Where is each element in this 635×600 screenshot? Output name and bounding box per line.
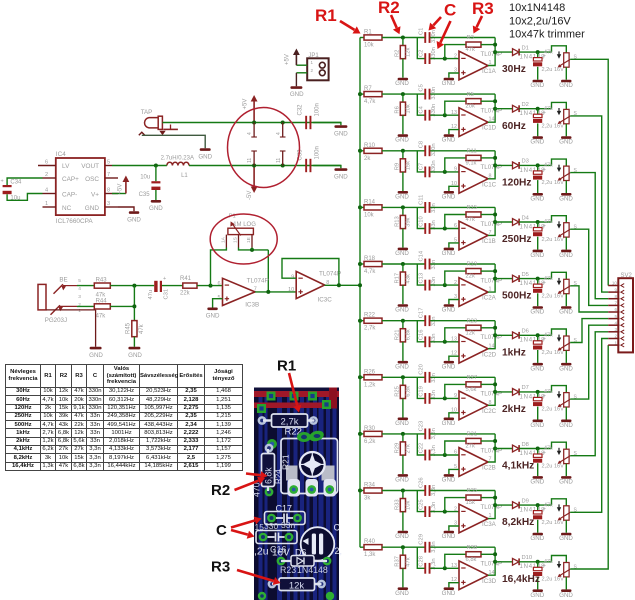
svg-text:R2: R2 [211, 482, 230, 499]
ground at IC1A + input [442, 73, 459, 87]
svg-text:R21: R21 [281, 454, 291, 470]
resistor R11 9,1k feedback [445, 149, 495, 172]
svg-text:33n: 33n [281, 520, 295, 530]
wire C bottom to inverting input [430, 566, 459, 570]
IC4 pin 6 LV [38, 159, 56, 165]
resistor R3 47k feedback [445, 35, 495, 58]
ground at JP1 [290, 73, 304, 98]
PCB capacitor C16 [255, 520, 298, 544]
capacitor C11 33n (top) [418, 195, 437, 213]
ground at R6 [395, 115, 409, 143]
annotation R1 bottom (black) [277, 358, 301, 413]
resistor R22 2,7k [364, 313, 382, 332]
wire to node A [382, 432, 425, 436]
+5V arrow at IC4 V+ [112, 176, 129, 195]
SV2 pin 3 [608, 327, 624, 334]
wire diode to node [519, 390, 551, 394]
ground at C18 [530, 350, 544, 372]
parts list text [509, 2, 585, 40]
resistor R14 10k [364, 199, 382, 218]
ground at jack [89, 347, 103, 359]
ground at C30 [530, 577, 544, 599]
capacitor C5 330n (top) [418, 84, 437, 99]
SV2 pin 2 [608, 334, 624, 341]
trimmer potentiometer 47k stage 8 [544, 442, 578, 464]
wire C34 to CAP- [7, 194, 42, 201]
wire IC3C feedback loop [282, 259, 339, 286]
wire trimmer wiper to SV2 pin [570, 286, 608, 312]
wire CAP+ to C34 [7, 178, 42, 185]
IC4 pin 2 CAP+ [43, 172, 56, 178]
trimmer potentiometer 47k stage 7 [544, 386, 578, 408]
wire IC3C out to filter bus [325, 283, 360, 287]
capacitor C7 330n (bottom) [418, 160, 437, 177]
wire C top to output node [430, 376, 495, 378]
wire pot wiper/E to feedback [239, 248, 269, 292]
wire TAP center to +5V rail [162, 122, 341, 124]
wire to node A [382, 36, 425, 40]
wire to node A [382, 92, 425, 96]
wire C top to output node [430, 37, 495, 39]
node bus stage 7 [358, 375, 364, 379]
PCB resistor R23 12k [268, 578, 326, 591]
wire trimmer wiper to SV2 pin [570, 319, 608, 343]
IC4 pin 3 GND [105, 201, 118, 207]
node bus stage 5 [358, 262, 364, 266]
ground at IC1D + input [442, 130, 459, 144]
wire trimmer wiper to SV2 pin [570, 116, 608, 292]
resistor R35 15k feedback [445, 488, 495, 511]
node bus stage 6 [358, 319, 364, 323]
diode D5 1N4148 [495, 272, 545, 287]
capacitor C29 3,3n (top) [418, 534, 437, 553]
wire trimmer wiper to SV2 pin [570, 173, 608, 299]
capacitor C25 3,3n (bottom) [418, 499, 437, 517]
IC4 pin 8 V+ [105, 187, 118, 193]
ground at IC3B + input [206, 299, 223, 320]
wire jack sleeve to ground [46, 310, 96, 347]
wire trimmer wiper to SV2 pin [570, 332, 608, 456]
SV2 pin 7 [608, 301, 624, 308]
ground at IC3D + input [442, 583, 459, 597]
capacitor C26 3,3n (top) [418, 477, 437, 496]
wire node A down to C2 row [417, 207, 424, 228]
resistor R6 10k [394, 94, 411, 115]
capacitor C22 3,3n (bottom) [418, 443, 437, 461]
resistor R10 2k [364, 143, 382, 162]
wire diode to node [519, 220, 551, 224]
wire diode to node [519, 107, 551, 111]
node bus stage 3 [358, 149, 364, 153]
resistor R13 39k [394, 207, 411, 228]
wire JP1 pin1 [296, 64, 307, 66]
wire C bottom to inverting input [430, 227, 459, 231]
PCB electrolytic capacitor [301, 523, 342, 561]
wire diode to node [519, 503, 551, 507]
+5V arrow at JP1 [285, 49, 300, 66]
resistor R7 4,7k [364, 86, 382, 105]
capacitor C12 2,2u/16V [533, 222, 564, 243]
ground at trimmer stage 3 [559, 181, 573, 203]
capacitor C3 2,2u/16V [533, 52, 564, 73]
wire C top to output node [430, 320, 495, 322]
resistor R38 6,8k feedback [445, 545, 495, 568]
ground at IC2C + input [442, 413, 459, 427]
inductor L1 2.7uH/0.23A [161, 155, 194, 179]
node +5V rail [252, 121, 285, 125]
wire C top to output node [430, 433, 495, 435]
capacitor C32 100n [298, 103, 321, 129]
+5V arrow on supply rail [243, 95, 258, 123]
wire VOUT to L1 [112, 165, 167, 167]
ground at trimmer stage 4 [559, 237, 573, 259]
wire diode to node [519, 163, 551, 167]
output node vertical [488, 151, 497, 179]
resistor R26 1,2k [364, 369, 382, 388]
svg-text:470: 470 [252, 482, 262, 497]
capacitor C9 2,2u/16V [533, 165, 564, 186]
capacitor C34 10u [1, 179, 23, 202]
ground at IC2A + input [442, 300, 459, 314]
output node vertical [488, 491, 497, 519]
wire JP1 pin2 [296, 72, 307, 74]
wire C top to output node [430, 490, 495, 492]
ground at C9 [530, 180, 544, 202]
capacitor C20 33n (top) [418, 364, 437, 383]
resistor R30 6,2k [364, 426, 382, 445]
capacitor C30 2,2u/16V [533, 562, 564, 583]
wire C bottom to inverting input [430, 113, 459, 117]
ground at trimmer stage 5 [559, 294, 573, 316]
diode D4 1N4148 [495, 215, 545, 230]
trimmer potentiometer 47k stage 6 [544, 329, 578, 351]
wire pot A to IC3B input [211, 248, 227, 286]
ground at R45 [128, 337, 142, 359]
svg-text:R3: R3 [211, 559, 230, 576]
wire R43 to C31 [110, 284, 154, 288]
node bus stage 4 [358, 205, 364, 209]
resistor R23 12k feedback [445, 318, 495, 341]
ground at C27 [530, 520, 544, 542]
wire C top to output node [430, 150, 495, 152]
resistor R37 47k [394, 547, 411, 568]
capacitor C15 2,2u/16V [533, 279, 564, 300]
connector JP1 [307, 53, 328, 80]
label 16,4kHz [502, 574, 540, 585]
diode D10 1N4148 [495, 555, 545, 570]
resistor R44 47k [94, 299, 110, 320]
wire node A down to C2 row [417, 94, 424, 115]
wire L1 to -5V rail [189, 165, 341, 167]
svg-text:1N4148: 1N4148 [297, 565, 328, 575]
ground at R25 [395, 399, 409, 427]
wire diode to node [519, 277, 551, 281]
ground at IC1C + input [442, 186, 459, 200]
capacitor C19 33n (bottom) [418, 386, 437, 404]
PCB bottom pads [258, 592, 334, 600]
opamp power pin 4 (right) [276, 123, 286, 138]
svg-text:R24: R24 [274, 469, 283, 484]
capacitor C18 2,2u/16V [533, 335, 564, 356]
resistor R18 4,7k [364, 256, 382, 275]
ground at C6 [530, 123, 544, 145]
ground at R21 [395, 342, 409, 370]
wire trimmer wiper to SV2 pin [570, 325, 608, 399]
wire to node A [382, 489, 425, 493]
capacitor C17 33n (top) [418, 308, 437, 327]
potentiometer P1 1M LOG [221, 214, 257, 248]
op-amp IC3D TL074P [451, 561, 502, 590]
ground at R33 [395, 512, 409, 540]
resistor R9 15k [394, 151, 411, 172]
red circle around P1 [210, 214, 277, 264]
wire C bottom to inverting input [430, 170, 459, 174]
wire C top to output node [430, 263, 495, 265]
ground at R29 [395, 455, 409, 483]
SV2 pin 10 [608, 281, 624, 288]
resistor R33 10k [394, 491, 411, 512]
resistor R2 12k [394, 38, 411, 59]
wire C bottom to inverting input [430, 283, 459, 287]
node -5V rail [252, 164, 285, 168]
label 120Hz [502, 178, 531, 189]
output node vertical [488, 377, 497, 405]
red circle around power pins [228, 108, 300, 188]
trimmer potentiometer 47k stage 9 [544, 499, 578, 521]
ground at IC2D + input [442, 356, 459, 370]
svg-text:C: C [216, 522, 227, 539]
PCB resistor R22 2,7k [258, 414, 318, 438]
wire C top to output node [430, 546, 495, 548]
wire node A down to C2 row [417, 377, 424, 398]
ground at trimmer stage 7 [559, 407, 573, 429]
capacitor C23 3,3n (top) [418, 421, 437, 440]
ground at R2 [395, 59, 409, 87]
resistor R21 6,8k [394, 321, 411, 342]
wire C top to output node [430, 206, 495, 208]
ground at C15 [530, 293, 544, 315]
resistor R1 10k [364, 30, 382, 49]
ground at trimmer stage 9 [559, 520, 573, 542]
diode D6 1N4148 [495, 329, 545, 344]
ground at C12 [530, 237, 544, 259]
wire to node A [382, 319, 425, 323]
wire C bottom to inverting input [430, 57, 459, 61]
ground at C3 [530, 67, 544, 89]
ground at trimmer stage 6 [559, 350, 573, 372]
capacitor C31 47u [148, 276, 169, 300]
op-amp IC1A TL074P [454, 51, 502, 80]
label 4,1kHz [502, 461, 534, 472]
annotation C (red) [429, 1, 457, 49]
wire IC3B out to IC3C [255, 290, 296, 294]
ground at C32 [313, 123, 348, 138]
label 2kHz [502, 404, 526, 415]
wire C bottom to inverting input [430, 340, 459, 344]
svg-text:R1: R1 [277, 358, 296, 375]
SV2 pin 4 [608, 320, 624, 327]
ground at C33 [313, 166, 348, 181]
wire to node A [382, 205, 425, 209]
capacitor C8 330n (top) [418, 141, 437, 156]
capacitor C16 33n (bottom) [418, 330, 437, 348]
svg-text:R23: R23 [280, 565, 296, 575]
ground at IC1B + input [442, 243, 459, 257]
op-amp IC1C TL074P [451, 164, 502, 193]
IC4 ICL7660CPA [56, 151, 105, 225]
op-amp IC2D TL074P [451, 334, 502, 363]
IC4 pin 5 VOUT [105, 159, 112, 165]
capacitor C28 3,3n (bottom) [418, 556, 437, 574]
frequency data table [5, 364, 243, 471]
-5V arrow on supply rail [247, 166, 258, 201]
IC4 pin 1 NC [43, 201, 56, 207]
PCB text R23 1N4148 [280, 565, 328, 575]
trimmer potentiometer 47k stage 3 [544, 159, 578, 181]
wire C bottom to inverting input [430, 453, 459, 457]
wire trimmer wiper to SV2 pin [570, 345, 608, 569]
wire trimmer wiper to SV2 pin [570, 229, 608, 305]
output node vertical [488, 434, 497, 462]
svg-text:330: 330 [264, 521, 278, 531]
PCB resistor R24 6,8k [252, 444, 284, 497]
ground at trimmer stage 1 [559, 67, 573, 89]
capacitor C2 330n (bottom) [418, 47, 437, 64]
resistor R45 47k [126, 321, 146, 337]
label 250Hz [502, 234, 531, 245]
label 500Hz [502, 291, 531, 302]
wire C top to output node [430, 93, 495, 95]
ground at R9 [395, 172, 409, 200]
resistor R5 20k feedback [445, 92, 495, 115]
output node vertical [488, 38, 497, 66]
capacitor C33 100n [298, 146, 321, 172]
op-amp IC1B TL074P [454, 221, 502, 250]
wire diode to node [519, 50, 551, 54]
wire trimmer wiper to SV2 pin [570, 59, 608, 285]
capacitor C4 330n (bottom) [418, 104, 437, 121]
resistor R29 27k [394, 434, 411, 455]
PCB trimmer R21 [267, 429, 338, 497]
capacitor C6 2,2u/16V [533, 109, 564, 130]
resistor R15 47k feedback [445, 205, 495, 228]
ground at C24 [530, 463, 544, 485]
wire to node A [382, 262, 425, 266]
wire C31 to R41 [162, 285, 183, 287]
annotation R2 (red) [378, 0, 401, 34]
ground at trimmer stage 2 [559, 124, 573, 146]
wire node A down to C2 row [417, 321, 424, 342]
resistor R41 22k [180, 276, 197, 297]
connector SV2 [618, 273, 633, 352]
capacitor C35 10u [139, 166, 164, 213]
annotation R1 (red) [315, 6, 361, 34]
wire R44 junction [110, 286, 136, 321]
ground at trimmer stage 10 [559, 577, 573, 599]
resistor R17 43k [394, 264, 411, 285]
wire diode to node [519, 333, 551, 337]
wire to node A [382, 375, 425, 379]
label 60Hz [502, 121, 526, 132]
TAP power connector [139, 109, 178, 135]
resistor R31 27k feedback [445, 432, 495, 455]
SV2 pin 1 [608, 340, 624, 347]
PCB capacitor C17 [264, 504, 305, 532]
wire node A down to C2 row [417, 264, 424, 285]
ground at R13 [395, 229, 409, 257]
ground at trimmer stage 8 [559, 464, 573, 486]
trimmer potentiometer 47k stage 4 [544, 216, 578, 238]
output node vertical [488, 547, 497, 575]
capacitor C14 33n (top) [418, 250, 437, 269]
ground at TAP [198, 148, 212, 160]
diode D3 1N4148 [495, 159, 545, 174]
trimmer potentiometer 47k stage 1 [544, 46, 578, 68]
audio jack BE PG203J [38, 277, 81, 324]
op-amp IC2A TL074P [454, 277, 502, 306]
annotation C bottom (black) [216, 517, 262, 540]
opamp power pin 11 (left) [247, 151, 257, 166]
diode D9 1N4148 [495, 498, 545, 513]
trimmer potentiometer 47k stage 5 [544, 272, 578, 294]
svg-text:,2u: ,2u [254, 546, 269, 558]
resistor R40 1,3k [364, 539, 382, 558]
resistor R43 47k [94, 278, 110, 299]
diode D7 1N4148 [495, 385, 545, 400]
output node vertical [488, 321, 497, 349]
op-amp IC2C TL074P [451, 391, 502, 420]
ground at C21 [530, 407, 544, 429]
input bus from IC3C [358, 38, 362, 548]
ground at IC4 pin 3 [118, 207, 141, 223]
node bus stage 1 [360, 37, 364, 39]
resistor R34 3k [364, 483, 382, 502]
wire node A down to C2 row [417, 38, 424, 59]
PCB diode D6 [277, 548, 332, 567]
resistor R27 5,6k feedback [445, 375, 495, 398]
diode D8 1N4148 [495, 442, 545, 457]
resistor R25 6,8k [394, 377, 411, 398]
wire TAP sleeve to ground [142, 135, 205, 148]
opamp power pin 4 (left) [247, 123, 257, 138]
node bus stage 9 [358, 489, 364, 493]
output node vertical [488, 264, 497, 292]
label 1kHz [502, 347, 526, 358]
IC4 pin 7 OSC [105, 172, 118, 178]
output node vertical [488, 207, 497, 235]
trimmer potentiometer 47k stage 2 [544, 102, 578, 124]
annotation R3 bottom (black) [211, 559, 281, 586]
wire C bottom to inverting input [430, 396, 459, 400]
node bus stage 2 [358, 92, 364, 96]
wire trimmer wiper to SV2 pin [570, 339, 608, 513]
capacitor C1 330n (top) [418, 28, 437, 43]
wire to node A [382, 149, 425, 153]
wire node A down to C2 row [417, 151, 424, 172]
wire jack to R44 [77, 305, 94, 307]
annotation R2 bottom (black) [211, 471, 268, 499]
wire node A down to C2 row [417, 547, 424, 568]
wire diode to node [519, 447, 551, 451]
ground at R37 [395, 568, 409, 596]
op-amp IC1D TL074P [451, 108, 502, 137]
capacitor C27 2,2u/16V [533, 505, 564, 526]
capacitor C21 2,2u/16V [533, 392, 564, 413]
SV2 pin 8 [608, 294, 624, 301]
SV2 pin 6 [608, 307, 624, 314]
SV2 pin 5 [608, 314, 624, 321]
wire R41 to IC3B [197, 284, 223, 288]
